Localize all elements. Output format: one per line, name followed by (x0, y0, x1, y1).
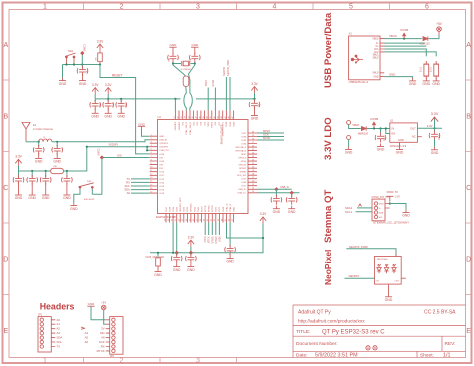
svg-text:3.3V: 3.3V (427, 124, 433, 128)
crystal Y2 (182, 61, 190, 66)
svg-text:MTDO: MTDO (212, 205, 214, 212)
svg-text:IO39: IO39 (230, 121, 232, 127)
svg-text:SPIDQS: SPIDQS (191, 203, 193, 212)
svg-text:IO41: IO41 (194, 206, 196, 212)
capacitor C14 (31, 171, 33, 177)
svg-text:B3U-1000P: B3U-1000P (84, 199, 95, 201)
svg-text:C: C (466, 185, 471, 192)
svg-text:3V: 3V (101, 327, 105, 331)
svg-text:IO14: IO14 (159, 186, 165, 188)
junction rail pin (174, 98, 176, 100)
svg-text:SW1: SW1 (68, 50, 74, 53)
svg-text:IO27: IO27 (219, 206, 221, 212)
svg-text:VDD3P3_CPU: VDD3P3_CPU (180, 197, 182, 212)
svg-text:E: E (466, 328, 471, 335)
diode D2 MBR120 (361, 126, 366, 130)
frame numbers bottom (43, 358, 200, 365)
svg-text:IO46: IO46 (159, 154, 165, 156)
svg-text:D: D (466, 257, 471, 264)
svg-text:B: B (466, 114, 471, 121)
wire reset left gnd (62, 65, 64, 78)
frame row ticks right (466, 80, 472, 295)
netflag arrow (81, 327, 85, 329)
svg-text:100n: 100n (99, 103, 101, 107)
svg-text:GND: GND (88, 302, 96, 306)
junction VUSB ldo (373, 127, 375, 129)
svg-text:U1: U1 (158, 115, 162, 119)
svg-text:D: D (3, 257, 8, 264)
wire J1 GND (385, 77, 413, 79)
capacitor C8 filter (38, 142, 40, 147)
svg-text:IO48: IO48 (241, 182, 247, 184)
svg-text:SWC1: SWC1 (83, 43, 87, 51)
wire VBUS (385, 38, 422, 40)
svg-text:C: C (3, 185, 8, 192)
svg-text:SBU2: SBU2 (373, 58, 380, 60)
junction rail cap2 (107, 98, 109, 100)
svg-text:IO0: IO0 (117, 153, 122, 157)
gnd pad (345, 147, 353, 155)
svg-text:CC 2.5 BY-SA: CC 2.5 BY-SA (424, 310, 456, 316)
svg-text:IO35: IO35 (241, 140, 247, 142)
svg-text:NEOPIX: NEOPIX (349, 274, 360, 278)
svg-text:41: 41 (210, 116, 212, 118)
Stemma pin circles (374, 202, 377, 219)
svg-text:10uF: 10uF (383, 135, 386, 141)
svg-text:VDD3P3_RTC: VDD3P3_RTC (223, 121, 225, 136)
svg-text:A3: A3 (57, 331, 61, 335)
svg-text:MI: MI (101, 336, 104, 340)
Stemma supply stubs (387, 192, 394, 196)
wire LDO gnd (399, 142, 401, 146)
svg-text:37: 37 (196, 116, 198, 118)
svg-text:USB_D+: USB_D+ (238, 193, 247, 195)
svg-text:RXD0: RXD0 (212, 79, 215, 86)
supply 3.3V reset (97, 39, 104, 50)
svg-text:36: 36 (192, 116, 194, 118)
net SWC1 (81, 53, 83, 64)
svg-text:LNA_IN: LNA_IN (159, 139, 167, 142)
gnd neopixel (385, 294, 393, 302)
wire left A0 (131, 192, 150, 194)
wire left RX (131, 181, 150, 183)
junction bottom cap2 (189, 251, 193, 255)
svg-text:IO12: IO12 (159, 179, 165, 181)
svg-text:SDA: SDA (379, 211, 384, 214)
wire CC1 (385, 49, 427, 56)
JP2 pin stubs (106, 320, 110, 351)
svg-text:NEOPIX_PWR: NEOPIX_PWR (227, 60, 230, 76)
svg-text:2: 2 (120, 358, 124, 365)
neopixel gnd wire (388, 284, 390, 294)
supply 3.3V cap2 (105, 83, 112, 94)
capacitor C7 reset (82, 65, 84, 68)
svg-text:6: 6 (425, 4, 429, 11)
svg-text:IO16: IO16 (159, 193, 165, 195)
svg-text:XTAL_P: XTAL_P (229, 203, 232, 212)
svg-text:IO25: IO25 (216, 206, 218, 212)
svg-text:EN: EN (392, 132, 396, 136)
svg-text:3: 3 (196, 4, 200, 11)
IC bottom pin stubs (166, 214, 234, 223)
supply 3.3V mid (188, 235, 195, 246)
svg-text:CC1: CC1 (374, 49, 379, 51)
svg-text:5V: 5V (395, 191, 398, 194)
svg-text:5: 5 (349, 4, 353, 11)
junction bottom cap1 (175, 251, 179, 255)
svg-text:A1: A1 (57, 322, 61, 326)
svg-text:NEOPIXEL: NEOPIXEL (377, 259, 389, 261)
wire crystal loop (173, 63, 195, 64)
svg-text:OUT: OUT (410, 127, 416, 131)
svg-text:SCL: SCL (57, 340, 63, 344)
resistor R7 5.1K (434, 61, 439, 79)
wire antenna (26, 141, 39, 143)
resistor R1 pullup (98, 51, 103, 64)
svg-text:USB_D-: USB_D- (238, 189, 246, 191)
svg-text:10uF: 10uF (112, 102, 114, 107)
connector JP2 box (110, 317, 123, 355)
gnd cap in (377, 144, 385, 152)
svg-text:SPID: SPID (241, 154, 247, 156)
svg-text:2.4 GHz Antenna: 2.4 GHz Antenna (33, 127, 53, 131)
pin stub NC (417, 136, 421, 138)
ferrite bead FB1 (51, 168, 64, 173)
resistor R3 bottom (157, 253, 159, 258)
capacitor C in ldo (380, 129, 382, 133)
svg-text:MTMS: MTMS (209, 205, 211, 212)
title block frame (293, 305, 466, 358)
wire left SDA (131, 189, 150, 191)
capacitor C13 (18, 171, 20, 177)
gnd stemma (402, 210, 410, 218)
capacitor C3 (120, 99, 122, 102)
wire reset rail (63, 64, 101, 66)
svg-text:RESET: RESET (112, 73, 123, 77)
resistor R6 5.1K (424, 61, 429, 79)
svg-text:38: 38 (199, 116, 201, 118)
svg-text:5.1K: 5.1K (429, 67, 432, 72)
svg-text:5.1K: 5.1K (420, 67, 423, 72)
gnd crystal cap1 (169, 47, 176, 54)
J1 pin stubs (380, 39, 385, 77)
svg-text:SCK: SCK (99, 340, 105, 344)
svg-text:GND: GND (373, 76, 378, 78)
capacitor esd1 (275, 189, 277, 197)
svg-text:SHLD: SHLD (372, 73, 378, 75)
svg-text:IO38: IO38 (226, 121, 228, 127)
capacitor C6 crystal (190, 53, 201, 63)
junction usb esd2 (290, 191, 294, 195)
wire vdd rtc loop (227, 223, 264, 239)
svg-text:MBR120: MBR120 (358, 131, 369, 135)
svg-text:CONN_JST_PH: CONN_JST_PH (372, 196, 390, 199)
svg-text:IO47: IO47 (241, 179, 247, 181)
svg-text:MOSI: MOSI (263, 136, 270, 140)
netflag stemma (359, 204, 362, 207)
capacitor C2 (107, 99, 109, 102)
wire SCL1 (356, 211, 373, 213)
frame column ticks bottom (84, 358, 237, 364)
wire MISO (257, 132, 284, 134)
supply +5V JP2 (101, 305, 106, 310)
gnd crystal cap2 (191, 47, 198, 54)
svg-text:MTCK: MTCK (208, 236, 211, 243)
svg-text:X1: X1 (349, 32, 353, 36)
switch SW2 boot (79, 183, 94, 189)
svg-text:IO19: IO19 (173, 206, 175, 212)
svg-text:RX: RX (101, 345, 105, 349)
svg-text:TITLE:: TITLE: (296, 329, 310, 335)
junction bypass (253, 98, 255, 100)
USB trident icon (351, 55, 363, 63)
svg-text:1: 1 (43, 4, 47, 11)
junction cap in (379, 127, 381, 129)
IC right pin stubs (248, 133, 257, 193)
JP2 labels (97, 327, 106, 353)
svg-text:USB Power/Data: USB Power/Data (323, 12, 334, 88)
antenna E1 (22, 123, 30, 142)
svg-text:IO45: IO45 (159, 161, 165, 163)
svg-text:40: 40 (207, 116, 209, 118)
svg-text:MTCK: MTCK (205, 205, 207, 212)
IC pin numbers (150, 116, 254, 221)
svg-text:JP2: JP2 (110, 355, 115, 358)
svg-text:SWC2: SWC2 (98, 148, 101, 156)
IC top pin stubs (175, 111, 233, 120)
wire 3.3V rail top (95, 98, 254, 100)
J1 pin labels (372, 39, 379, 79)
wire vdd tie (147, 147, 150, 151)
svg-text:IO13: IO13 (159, 182, 165, 184)
svg-text:33: 33 (181, 116, 183, 118)
svg-text:USB4105-GF-A: USB4105-GF-A (349, 80, 369, 84)
wire NEOPIX stub (225, 77, 227, 111)
svg-text:CHIP_PU: CHIP_PU (159, 150, 169, 152)
resistor R2 crystal series (183, 76, 189, 87)
capacitor C11 (176, 253, 178, 256)
junction crystal left (172, 62, 174, 64)
junction usb esd1 (274, 187, 278, 191)
neopixel U3 box (375, 257, 402, 285)
svg-text:3.3V: 3.3V (395, 196, 400, 199)
capacitor C out ldo (434, 128, 436, 132)
svg-text:VDD_SPI: VDD_SPI (237, 175, 247, 177)
svg-text:QT Py ESP32-S3 rev C: QT Py ESP32-S3 rev C (322, 329, 385, 335)
bottom label wires MTMS..MTDO (205, 223, 219, 236)
svg-text:31: 31 (174, 116, 176, 118)
frame numbers top (43, 4, 429, 11)
wire USB_D+ right (257, 192, 299, 194)
svg-text:GPIO1A_N: GPIO1A_N (235, 150, 246, 153)
svg-text:NEOPIX_PWR: NEOPIX_PWR (349, 245, 368, 249)
svg-text:CC2: CC2 (374, 52, 379, 54)
supply 3.3V out (431, 112, 439, 124)
svg-text:Date:: Date: (296, 352, 307, 358)
svg-text:47: 47 (232, 116, 234, 118)
alt labels A4 A5 A6 (85, 331, 89, 344)
svg-text:34: 34 (185, 116, 187, 118)
wire pad gnd (348, 140, 350, 147)
svg-text:A6: A6 (85, 340, 89, 344)
wire IC to bottom rail a (172, 223, 174, 253)
svg-text:GND: GND (233, 207, 235, 212)
junction VBUS (403, 38, 405, 40)
frame column ticks top (84, 3, 390, 10)
svg-text:MTCK: MTCK (97, 349, 105, 353)
svg-text:IO34: IO34 (241, 143, 247, 145)
capacitor C16 (66, 171, 68, 177)
gnd J1 (409, 78, 417, 86)
wire boot drop (92, 158, 102, 195)
wire LDO OUT 3.3V (417, 127, 442, 129)
IC left pin stubs (150, 136, 158, 193)
gnd LDO (396, 147, 404, 155)
svg-text:IO21: IO21 (241, 186, 247, 188)
wire stemma gnd (390, 204, 406, 210)
gnd IC pin1 (138, 126, 145, 129)
svg-text:VDD3P3: VDD3P3 (159, 143, 168, 145)
wire left TX (131, 178, 150, 180)
wire IC to bottom rail b (176, 223, 178, 253)
junction out (433, 127, 435, 129)
gnd cap out (431, 147, 439, 155)
svg-text:44: 44 (221, 116, 223, 118)
svg-text:GND: GND (379, 203, 384, 205)
svg-text:SCL1: SCL1 (345, 210, 352, 214)
diode D1 MBR120 (423, 36, 428, 40)
capacitor C5 crystal (168, 53, 179, 63)
LED symbols (377, 264, 396, 273)
svg-text:IO33: IO33 (187, 206, 189, 212)
svg-text:SPICLK: SPICLK (238, 158, 246, 160)
svg-text:Sheet:: Sheet: (420, 352, 434, 358)
capacitor C12 (190, 253, 192, 256)
svg-text:GND: GND (159, 136, 164, 138)
wire USB D+ (385, 45, 427, 47)
svg-text:IO15_DNL_SAF: IO15_DNL_SAF (146, 255, 165, 259)
svg-text:VDD3P3: VDD3P3 (179, 121, 181, 130)
svg-text:SPIHD: SPIHD (240, 172, 247, 174)
capacitor C4 bypass (254, 99, 256, 102)
svg-text:4: 4 (273, 4, 277, 11)
wire rail to IC pin1 (174, 99, 176, 111)
wire MOSI (257, 139, 284, 141)
gnd below R6 (423, 78, 431, 86)
wire USB_D- right (257, 188, 292, 190)
svg-text:Headers: Headers (40, 301, 75, 311)
JP1 pin stubs (51, 320, 55, 347)
svg-text:STEMMA_I2C_QTSKINNY: STEMMA_I2C_QTSKINNY (373, 220, 409, 224)
svg-text:E: E (3, 328, 8, 335)
svg-text:IN: IN (392, 127, 395, 131)
wire crystal diag right (189, 64, 195, 94)
svg-text:IO26: IO26 (184, 206, 186, 212)
wire braid to pins (184, 87, 186, 111)
wire diode to LDO (367, 128, 390, 130)
svg-text:SPIWP: SPIWP (239, 168, 247, 170)
svg-text:IO20: IO20 (177, 206, 179, 212)
capacitor C10 (225, 245, 236, 255)
svg-text:35: 35 (188, 116, 190, 118)
svg-text:GND: GND (389, 72, 395, 76)
svg-text:IO28: IO28 (223, 206, 225, 212)
wire gnd to pin1 (142, 129, 150, 136)
supply +5V (436, 22, 443, 34)
frame row ticks left (3, 80, 10, 295)
wire diode to +5V (429, 35, 439, 39)
wire CC2 (385, 52, 437, 56)
svg-text:GND: GND (170, 43, 178, 47)
svg-text:IO17: IO17 (166, 206, 168, 212)
svg-text:XTAL_N: XTAL_N (225, 203, 228, 212)
wire 3.3V filter row (19, 147, 87, 171)
svg-text:IO10: IO10 (159, 172, 165, 174)
svg-text:AP2112K-3.3: AP2112K-3.3 (390, 144, 407, 148)
svg-text:Adafruit QT Py: Adafruit QT Py (298, 310, 331, 316)
capacitor esd2 (291, 193, 293, 197)
svg-text:TXD0: TXD0 (205, 80, 208, 87)
Stemma right pin stubs (385, 204, 390, 209)
IC U1 ESP32-S3 box (158, 120, 249, 214)
svg-text:32.768KHZ: 32.768KHZ (181, 69, 192, 71)
svg-text:GND: GND (398, 138, 404, 142)
wire VDD3P3 feed (87, 146, 147, 148)
IC bottom pin labels (166, 197, 236, 212)
svg-text:SBU1: SBU1 (373, 55, 380, 57)
svg-text:A5: A5 (85, 336, 89, 340)
svg-text:IO37: IO37 (241, 133, 247, 135)
regulator U2 AP2112K box (390, 123, 418, 142)
svg-text:A2: A2 (57, 327, 61, 331)
frame letters left (3, 42, 8, 335)
svg-text:GND: GND (138, 122, 146, 126)
svg-text:A0: A0 (127, 191, 131, 195)
svg-text:IO36: IO36 (241, 136, 247, 138)
supply 3.3V bypass right (251, 82, 258, 93)
title block registered marks (366, 346, 377, 350)
svg-text:46: 46 (228, 116, 230, 118)
svg-text:2: 2 (120, 4, 124, 11)
junction stemma (389, 202, 391, 204)
svg-text:Document Number:: Document Number: (296, 341, 338, 347)
svg-text:45: 45 (225, 116, 227, 118)
svg-text:JP1: JP1 (38, 313, 43, 316)
svg-text:NEOPIX: NEOPIX (223, 67, 226, 76)
svg-text:USB_D-: USB_D- (280, 185, 290, 189)
svg-text:NC: NC (412, 135, 416, 139)
supply VUSB (400, 28, 408, 39)
svg-text:SPICS0: SPICS0 (238, 165, 247, 167)
svg-text:IO18: IO18 (169, 206, 171, 212)
pad GND2 (347, 136, 351, 140)
svg-text:A0: A0 (57, 318, 61, 322)
svg-text:VBUS: VBUS (372, 39, 379, 41)
connector Stemma box (372, 199, 385, 221)
svg-text:43: 43 (218, 116, 220, 118)
svg-text:OUT: OUT (395, 281, 400, 283)
svg-text:42: 42 (214, 116, 216, 118)
IC right pin labels (235, 133, 247, 195)
svg-text:http://adafruit.com/products/x: http://adafruit.com/products/xxx (298, 318, 365, 324)
svg-text:IO26: IO26 (218, 236, 221, 242)
svg-text:MTDO: MTDO (215, 236, 218, 243)
capacitor C1 (94, 99, 96, 102)
svg-text:VBUS: VBUS (389, 34, 397, 38)
supply 3.3V bottom (260, 212, 267, 223)
neopixel right stub (401, 277, 406, 279)
gnd below R7 (432, 78, 440, 86)
